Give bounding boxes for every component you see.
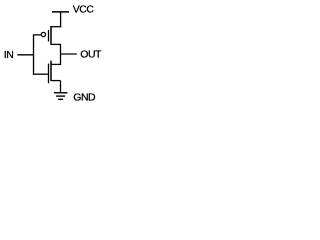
wire Q1 drain to Q2 drain (node OUT): [60, 44, 62, 65]
power symbol VCC: [52, 12, 69, 27]
transistor Q2 (NMOS): [34, 61, 61, 84]
wire IN stub: [17, 54, 34, 56]
svg-text:GND: GND: [73, 91, 96, 103]
wire OUT stub: [61, 53, 77, 55]
wire input bus: [33, 34, 35, 75]
svg-text:VCC: VCC: [73, 4, 95, 16]
svg-text:IN: IN: [4, 49, 14, 61]
ground symbol: [54, 93, 68, 100]
wire Q2 source to ground: [60, 81, 62, 93]
svg-text:OUT: OUT: [80, 49, 102, 61]
transistor Q1 (PMOS): [34, 26, 61, 45]
wire VCC to Q1 source: [50, 26, 61, 28]
